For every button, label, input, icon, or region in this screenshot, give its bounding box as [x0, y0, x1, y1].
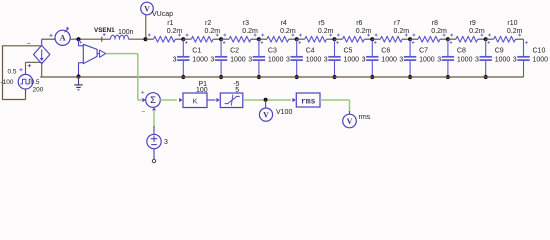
svg-text:r1: r1 — [167, 20, 173, 27]
svg-text:0.2m: 0.2m — [356, 28, 372, 35]
svg-text:1000: 1000 — [306, 56, 322, 63]
svg-text:VSEN1: VSEN1 — [94, 27, 115, 34]
svg-text:+: + — [141, 89, 145, 96]
svg-text:C10: C10 — [533, 47, 546, 54]
svg-text:0.2m: 0.2m — [318, 28, 334, 35]
svg-text:5: 5 — [235, 87, 239, 94]
svg-text:3: 3 — [513, 56, 517, 63]
svg-text:C6: C6 — [381, 47, 390, 54]
svg-text:1000: 1000 — [230, 56, 246, 63]
svg-text:C5: C5 — [344, 47, 353, 54]
svg-text:C4: C4 — [306, 47, 315, 54]
svg-text:0.2m: 0.2m — [394, 28, 410, 35]
svg-text:0.2m: 0.2m — [242, 28, 258, 35]
svg-text:−: − — [142, 109, 146, 116]
svg-text:3: 3 — [164, 139, 168, 146]
svg-text:r2: r2 — [205, 20, 211, 27]
svg-text:r8: r8 — [432, 20, 438, 27]
svg-text:3: 3 — [324, 56, 328, 63]
svg-text:r9: r9 — [470, 20, 476, 27]
svg-text:A: A — [60, 33, 67, 43]
svg-text:0.2m: 0.2m — [167, 28, 183, 35]
svg-text:r10: r10 — [507, 20, 517, 27]
svg-text:C8: C8 — [457, 47, 466, 54]
svg-text:0.2m: 0.2m — [280, 28, 296, 35]
svg-text:rms: rms — [301, 97, 316, 106]
svg-text:1000: 1000 — [344, 56, 360, 63]
svg-text:C1: C1 — [192, 47, 201, 54]
svg-text:1000: 1000 — [381, 56, 397, 63]
svg-text:3: 3 — [210, 56, 214, 63]
svg-text:C3: C3 — [268, 47, 277, 54]
svg-text:V: V — [347, 117, 353, 126]
svg-text:−: − — [27, 41, 31, 48]
svg-text:Σ: Σ — [150, 95, 156, 106]
svg-text:3: 3 — [286, 56, 290, 63]
svg-text:r7: r7 — [394, 20, 400, 27]
svg-text:C9: C9 — [495, 47, 504, 54]
svg-text:3: 3 — [475, 56, 479, 63]
svg-text:3: 3 — [173, 56, 177, 63]
svg-text:1000: 1000 — [268, 56, 284, 63]
svg-text:100: 100 — [196, 87, 208, 94]
svg-text:3: 3 — [399, 56, 403, 63]
svg-text:0.2m: 0.2m — [507, 28, 523, 35]
svg-text:VUcap: VUcap — [152, 11, 173, 18]
svg-text:-100: -100 — [1, 79, 14, 86]
svg-text:100n: 100n — [118, 29, 134, 36]
svg-text:r5: r5 — [318, 20, 324, 27]
svg-text:3: 3 — [362, 56, 366, 63]
svg-text:200: 200 — [33, 87, 44, 94]
svg-text:3: 3 — [437, 56, 441, 63]
svg-text:1000: 1000 — [533, 56, 549, 63]
svg-text:1000: 1000 — [457, 56, 473, 63]
svg-text:0.5: 0.5 — [8, 69, 17, 76]
svg-text:r4: r4 — [281, 20, 287, 27]
svg-text:1000: 1000 — [192, 56, 208, 63]
svg-text:r3: r3 — [243, 20, 249, 27]
svg-text:V: V — [144, 4, 150, 13]
svg-text:3: 3 — [248, 56, 252, 63]
svg-text:r6: r6 — [356, 20, 362, 27]
svg-text:K: K — [192, 97, 197, 106]
svg-text:V: V — [263, 111, 269, 120]
svg-text:C2: C2 — [230, 47, 239, 54]
svg-text:1000: 1000 — [495, 56, 511, 63]
svg-text:C7: C7 — [419, 47, 428, 54]
svg-text:rms: rms — [359, 114, 371, 121]
svg-text:1000: 1000 — [419, 56, 435, 63]
svg-text:0.5: 0.5 — [31, 79, 40, 86]
svg-text:0.2m: 0.2m — [205, 28, 221, 35]
svg-text:0.2m: 0.2m — [469, 28, 485, 35]
svg-text:V100: V100 — [276, 109, 292, 116]
svg-text:0.2m: 0.2m — [431, 28, 447, 35]
